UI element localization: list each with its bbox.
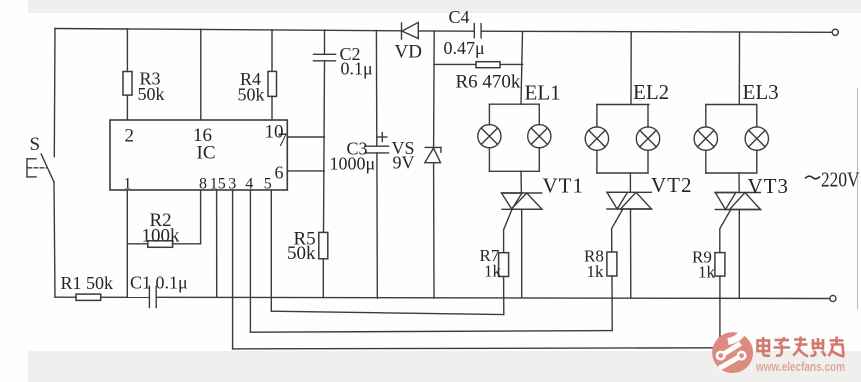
- svg-text:1: 1: [124, 175, 132, 192]
- svg-text:VT2: VT2: [651, 173, 693, 197]
- svg-text:R6 470k: R6 470k: [456, 72, 521, 93]
- svg-text:0.47μ: 0.47μ: [444, 38, 485, 58]
- svg-text:1k: 1k: [484, 262, 502, 281]
- svg-text:C4: C4: [449, 7, 470, 27]
- svg-text:EL2: EL2: [633, 80, 669, 104]
- svg-text:1000μ: 1000μ: [330, 154, 376, 174]
- svg-text:EL1: EL1: [525, 81, 561, 105]
- svg-text:VT1: VT1: [543, 174, 585, 198]
- svg-text:6: 6: [275, 163, 284, 183]
- svg-text:0.1μ: 0.1μ: [341, 59, 373, 79]
- svg-text:50k: 50k: [138, 84, 165, 104]
- svg-text:1k: 1k: [698, 263, 716, 282]
- svg-text:50k: 50k: [238, 85, 265, 105]
- svg-text:220V: 220V: [821, 168, 860, 192]
- svg-text:1k: 1k: [587, 262, 605, 281]
- svg-text:C1 0.1μ: C1 0.1μ: [130, 273, 188, 293]
- svg-text:5: 5: [264, 175, 272, 192]
- svg-text:R1 50k: R1 50k: [61, 273, 114, 293]
- svg-text:3: 3: [228, 175, 236, 192]
- svg-text:15: 15: [210, 175, 226, 192]
- svg-text:9V: 9V: [393, 153, 415, 173]
- svg-text:2: 2: [125, 126, 135, 147]
- svg-text:IC: IC: [197, 143, 216, 164]
- svg-text:100k: 100k: [142, 226, 181, 247]
- svg-text:VT3: VT3: [748, 174, 790, 198]
- svg-text:VD: VD: [395, 42, 422, 63]
- svg-text:S: S: [30, 134, 41, 155]
- svg-text:www.elecfans.com: www.elecfans.com: [755, 359, 845, 374]
- svg-text:7: 7: [278, 130, 288, 151]
- svg-text:8: 8: [199, 175, 207, 192]
- svg-text:EL3: EL3: [743, 80, 779, 104]
- svg-text:4: 4: [245, 175, 253, 192]
- svg-text:50k: 50k: [287, 243, 316, 264]
